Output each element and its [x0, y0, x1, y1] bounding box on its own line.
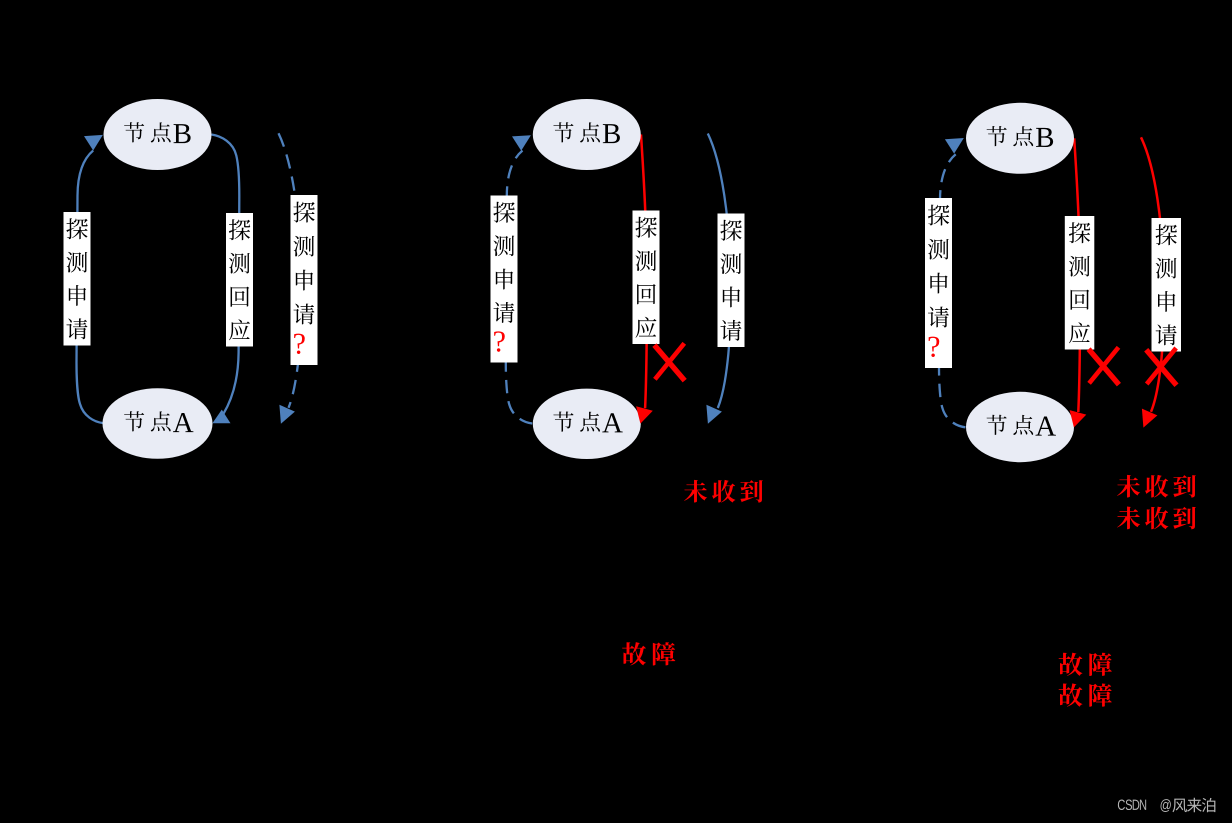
red text: fault 1 (group 3) [1059, 653, 1112, 676]
label: probe request ? (group 1) [291, 195, 318, 365]
node B (group 3) [966, 103, 1074, 174]
label: probe request (group 3) [1152, 218, 1182, 352]
node A (group 3) [966, 392, 1074, 462]
node A (group 2) [533, 389, 641, 459]
wire: probe-request arc going down (group 2) [708, 134, 731, 409]
arrowhead up into node B (group 1) [84, 135, 103, 151]
label: probe request ? (group 2) [491, 196, 518, 363]
watermark: CSDN @风来泊 [1118, 798, 1216, 812]
red text: fault 2 (group 3) [1059, 683, 1112, 706]
X mark: request lost (group 3) [1146, 348, 1176, 385]
arrowhead blue outer arc end (group 2) [706, 405, 722, 424]
node B (group 2) [533, 99, 641, 170]
wire: dashed next probe-request arc (group 1) [279, 133, 302, 408]
label: probe request (group 2) [718, 214, 745, 348]
arrowhead down into node A (group 1) [212, 410, 230, 424]
wire: red lost probe-request outer arc (group 3) [1141, 137, 1164, 412]
X mark: reply lost (group 2) [654, 343, 684, 380]
red text: not received 2 (group 3) [1117, 507, 1196, 530]
red text: not received (group 2) [684, 480, 763, 503]
label: probe request ? (group 3) [925, 198, 952, 368]
wire: red lost probe-reply arc B to A (group 3) [1074, 138, 1080, 412]
wire: probe-reply arc B to A (group 1) [212, 135, 240, 415]
label: probe request (group 1) [64, 212, 91, 346]
label: probe reply (group 2) [633, 211, 660, 345]
arrowhead up into node B (group 2) [512, 135, 531, 151]
arrowhead up into node B (group 3) [945, 138, 964, 154]
node A (group 1) [103, 388, 213, 459]
label: probe reply (group 1) [226, 213, 253, 347]
wire: probe-request arc A to B (group 1) [77, 151, 103, 424]
wire: red lost probe-reply arc B to A (group 2) [641, 135, 647, 409]
red arrowhead reply into node A (group 3) [1070, 410, 1087, 427]
wire: dashed probe-request arc A to B (group 2) [506, 151, 532, 424]
node B (group 1) [104, 99, 212, 170]
wire: dashed probe-request arc A to B (group 3) [939, 154, 965, 427]
red text: fault (group 2) [622, 642, 675, 665]
arrowhead dashed arc end (group 1) [279, 405, 295, 424]
X mark: reply lost (group 3) [1089, 347, 1119, 384]
label: probe reply (group 3) [1065, 216, 1095, 350]
red arrowhead into node A (group 2) [636, 406, 653, 423]
red arrowhead request into node A (group 3) [1142, 409, 1158, 428]
red text: not received 1 (group 3) [1117, 475, 1196, 498]
